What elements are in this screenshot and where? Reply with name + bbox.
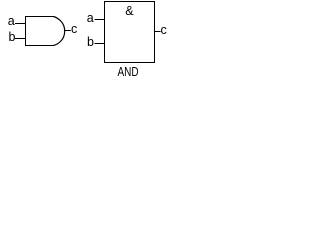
svg-text:c: c (71, 22, 77, 36)
AND gate U1 (IEC rectangular symbol) (105, 2, 155, 63)
wire IEC box output (154, 31, 161, 32)
wire input a to IEC box (95, 19, 106, 20)
wire input a to AND gate (15, 23, 26, 24)
svg-text:a: a (87, 11, 94, 25)
AND gate U1 (distinctive shape) (25, 16, 65, 46)
svg-text:b: b (87, 35, 94, 49)
wire input b to AND gate (15, 38, 26, 39)
svg-text:&: & (125, 4, 134, 18)
wire input b to IEC box (95, 43, 106, 44)
background (0, 0, 170, 83)
svg-text:b: b (9, 30, 16, 44)
svg-text:a: a (8, 14, 15, 28)
svg-text:AND: AND (118, 65, 139, 79)
svg-text:c: c (161, 23, 167, 37)
wire AND gate output (65, 30, 71, 31)
